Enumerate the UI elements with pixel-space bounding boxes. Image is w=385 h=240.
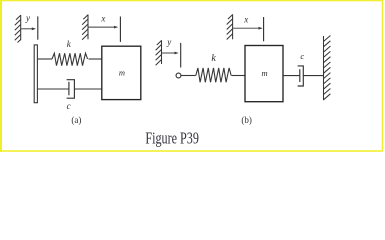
arrow y (a) [21,27,36,30]
svg-text:x: x [100,14,105,24]
wall W3 input support (b) [156,40,162,65]
svg-text:m: m [119,68,125,78]
damper cylinder cup (a) [67,80,75,99]
tick x reference (b) [263,17,265,41]
tick x reference (a) [119,17,121,42]
spring k (b) [196,68,231,82]
svg-text:y: y [25,13,30,23]
wire spring to mass (b) [232,75,246,77]
svg-text:(b): (b) [241,115,252,125]
ceiling W2 fixed support (a) [82,15,88,40]
damper piston (b) [299,69,301,82]
tick y reference (a) [37,16,39,39]
svg-text:c: c [300,51,304,61]
svg-text:Figure P39: Figure P39 [145,128,199,147]
svg-text:k: k [67,39,72,49]
svg-text:k: k [211,53,216,64]
wall W5 fixed support right (b) [324,36,331,101]
wall W1 input support (a) [15,15,21,43]
svg-text:x: x [243,15,248,25]
tick y reference (b) [180,43,182,68]
arrow y (b) [162,52,179,55]
wire damper to wall (b) [303,75,323,77]
wire damper to mass (a) [74,88,101,90]
svg-text:c: c [67,101,71,111]
yellow highlight border [0,0,383,152]
damper piston (a) [68,82,70,96]
input plate bar (a) [34,45,37,103]
wire spring to mass (a) [89,58,102,60]
svg-text:(a): (a) [71,115,81,125]
spring k (a) [52,53,88,65]
svg-text:m: m [262,68,268,78]
damper cylinder cup (b) [298,66,304,86]
input pin circle (b) [176,73,181,78]
svg-text:y: y [166,37,171,47]
damper rod (b) [283,75,300,77]
arrow x (b) [233,27,263,30]
damper rod (a) [37,88,69,90]
wire pin to spring (b) [181,75,196,77]
arrow x (a) [89,26,119,29]
mass m block (a) [102,46,141,99]
mass m block (b) [245,46,283,102]
wire plate to spring (a) [37,58,52,60]
ceiling W4 fixed support (b) [227,14,233,39]
